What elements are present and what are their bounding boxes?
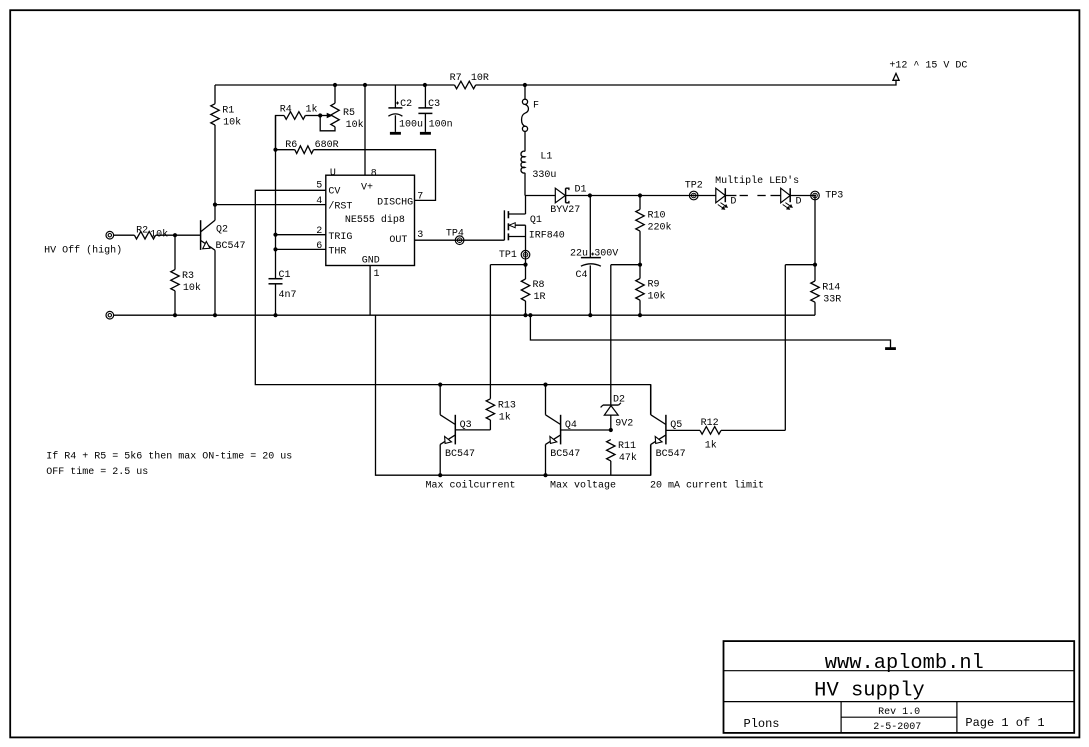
wire down to R13: [489, 265, 491, 399]
svg-text:R12: R12: [701, 418, 719, 429]
power arrow +12V supply: [893, 73, 899, 80]
node /RST junction: [213, 203, 217, 207]
svg-text:BYV27: BYV27: [550, 205, 580, 216]
capacitor C4: [589, 196, 591, 258]
wire pin5 CV run to limiter collectors: [255, 190, 650, 414]
svg-text:TP2: TP2: [685, 181, 703, 192]
svg-text:1k: 1k: [306, 104, 318, 116]
svg-text:IRF840: IRF840: [529, 231, 565, 242]
svg-text:10k: 10k: [223, 116, 241, 128]
fuse F: [523, 83, 527, 87]
wire source node to R13 drop: [490, 264, 525, 266]
wire L1 to D1: [525, 195, 555, 197]
node ground branch junction: [528, 313, 532, 317]
svg-text:680R: 680R: [315, 140, 339, 151]
node Q2 emitter junction: [213, 313, 217, 317]
svg-text:TP4: TP4: [446, 229, 464, 240]
svg-text:C4: C4: [576, 270, 588, 281]
svg-text:BC547: BC547: [656, 449, 686, 460]
svg-text:www.aplomb.nl: www.aplomb.nl: [825, 652, 984, 675]
wire down to zener D2: [610, 265, 612, 405]
svg-text:R13: R13: [498, 400, 516, 411]
resistor R14: [814, 265, 816, 281]
wire pin3 OUT to gate: [415, 239, 505, 241]
node R3 bottom junction: [173, 313, 177, 317]
node R8 bottom junction: [523, 313, 527, 317]
svg-text:R4: R4: [280, 105, 292, 116]
resistor R9: [639, 265, 641, 279]
LED D first: [716, 188, 726, 203]
svg-text:9V2: 9V2: [615, 418, 633, 429]
svg-text:C2: C2: [400, 99, 412, 110]
svg-text:4: 4: [316, 196, 322, 207]
svg-text:TP3: TP3: [825, 191, 843, 202]
resistor R4: [276, 116, 285, 150]
svg-text:BC547: BC547: [445, 449, 475, 460]
wire timing node vertical: [275, 116, 277, 279]
resistor R10: [639, 196, 641, 210]
svg-text:R14: R14: [822, 283, 840, 294]
resistor R13: [486, 399, 494, 420]
svg-text:C1: C1: [279, 270, 291, 281]
resistor R1: [214, 85, 216, 104]
terminal input common: [106, 311, 114, 319]
svg-text:If R4 + R5 = 5k6 then max ON-t: If R4 + R5 = 5k6 then max ON-time = 20 u…: [46, 451, 292, 463]
svg-text:Q1: Q1: [530, 215, 542, 226]
svg-text:33R: 33R: [823, 295, 841, 306]
potentiometer R5: [333, 83, 337, 87]
svg-text:2-5-2007: 2-5-2007: [873, 722, 921, 733]
LED D second: [781, 188, 791, 203]
resistor R3: [174, 235, 176, 269]
svg-text:C3: C3: [428, 99, 440, 110]
svg-text:U: U: [330, 168, 336, 179]
svg-text:BC547: BC547: [550, 449, 580, 460]
inductor L1: [521, 151, 525, 173]
svg-text:10k: 10k: [183, 282, 201, 294]
svg-text:Max voltage: Max voltage: [550, 480, 616, 492]
node Q4 emitter junction: [543, 473, 547, 477]
transistor Q4 BC547: [545, 385, 547, 415]
svg-text:R2: R2: [136, 226, 148, 237]
svg-text:6: 6: [316, 241, 322, 252]
svg-text:GND: GND: [362, 256, 380, 267]
transistor Q3 BC547: [439, 385, 441, 415]
ground: [885, 347, 896, 350]
node R14 top junction: [813, 263, 817, 267]
node pin2 junction: [273, 233, 277, 237]
node C1 bottom junction: [273, 313, 277, 317]
node Q3 emitter junction: [438, 473, 442, 477]
wire D1 to LED chain: [566, 195, 716, 197]
resistor R7: [455, 81, 476, 89]
svg-text:10k: 10k: [346, 119, 364, 131]
wire +12V top rail right segment: [476, 80, 896, 85]
svg-text:100u: 100u: [399, 119, 423, 130]
svg-text:Max coilcurrent: Max coilcurrent: [426, 480, 516, 492]
testpoint TP1: [521, 250, 530, 259]
svg-text:R6: R6: [285, 140, 297, 151]
svg-text:TP1: TP1: [499, 250, 517, 261]
svg-text:R9: R9: [648, 280, 660, 291]
svg-text:/RST: /RST: [328, 200, 352, 212]
wire dashes to LED2: [771, 195, 781, 197]
resistor R8: [525, 265, 527, 279]
wire TP3 down to R14 node: [814, 196, 816, 265]
svg-text:R11: R11: [618, 441, 636, 452]
svg-text:300V: 300V: [594, 249, 618, 260]
node source junction: [523, 263, 527, 267]
svg-text:22u: 22u: [570, 249, 588, 260]
svg-text:TRIG: TRIG: [328, 232, 352, 243]
svg-text:Page 1 of 1: Page 1 of 1: [965, 716, 1044, 730]
svg-text:1k: 1k: [499, 411, 511, 423]
node R9 bottom junction: [638, 313, 642, 317]
transistor Q5 BC547: [650, 385, 652, 415]
svg-text:+12 ^ 15 V DC: +12 ^ 15 V DC: [889, 61, 967, 72]
svg-text:CV: CV: [328, 187, 340, 198]
svg-text:OFF time = 2.5 us: OFF time = 2.5 us: [46, 466, 148, 478]
svg-text:DISCHG: DISCHG: [377, 198, 413, 209]
wire V+ to pin 8: [363, 83, 367, 87]
svg-text:D2: D2: [613, 395, 625, 406]
wire R2 to Q2 base: [156, 234, 201, 236]
svg-text:10k: 10k: [150, 228, 168, 240]
wire R13 to Q3 base: [455, 429, 490, 431]
svg-text:1: 1: [374, 269, 380, 280]
svg-text:OUT: OUT: [389, 235, 407, 246]
title block: [724, 641, 1075, 733]
svg-text:Rev 1.0: Rev 1.0: [878, 707, 920, 718]
diode D2 zener 9V2: [603, 404, 619, 406]
node D2/R11 junction: [609, 428, 613, 432]
wire R9 node to D2 line: [611, 264, 640, 266]
resistor R12: [666, 429, 700, 431]
testpoint TP3: [811, 191, 820, 200]
capacitor C3: [423, 83, 427, 87]
svg-text:20 mA current limit: 20 mA current limit: [650, 480, 764, 492]
node Q3 collector junction: [438, 383, 442, 387]
wire input to R2: [114, 234, 135, 236]
node R10 top junction: [638, 193, 642, 197]
wire pin1 gnd feed to limiter emitters: [376, 315, 651, 475]
svg-text:R10: R10: [648, 211, 666, 222]
wire pin4 /RST to node: [215, 204, 326, 206]
resistor R11: [607, 440, 615, 461]
svg-text:Q5: Q5: [670, 420, 682, 431]
svg-text:1R: 1R: [534, 292, 546, 303]
svg-text:10R: 10R: [471, 73, 489, 84]
svg-text:F: F: [533, 101, 539, 112]
op-amp U1 NE555 timer box: [326, 175, 415, 265]
transistor Q1 IRF840: [503, 210, 505, 240]
svg-text:D: D: [730, 196, 736, 207]
svg-text:2: 2: [316, 226, 322, 237]
svg-text:R5: R5: [343, 108, 355, 119]
wire down to R12: [784, 265, 786, 431]
svg-text:4n7: 4n7: [279, 290, 297, 301]
testpoint TP2: [689, 191, 698, 200]
svg-text:Q3: Q3: [460, 420, 472, 431]
capacitor C1: [269, 278, 283, 280]
svg-text:R1: R1: [222, 105, 234, 116]
svg-text:THR: THR: [328, 246, 346, 257]
resistor R2: [134, 231, 155, 239]
svg-text:V+: V+: [361, 183, 373, 194]
wire LED2 to TP3: [790, 195, 815, 197]
svg-text:HV Off (high): HV Off (high): [44, 244, 122, 256]
wire Q4 base to D2 node: [561, 429, 611, 431]
wire +12V top rail left segment: [215, 84, 455, 86]
node R10/R9 junction: [638, 263, 642, 267]
resistor R6: [273, 148, 277, 152]
diode D1 BYV27: [555, 188, 565, 203]
svg-text:100n: 100n: [429, 119, 453, 130]
node C4 bottom junction: [588, 313, 592, 317]
svg-text:220k: 220k: [648, 222, 672, 234]
svg-text:L1: L1: [540, 151, 552, 162]
svg-text:1k: 1k: [705, 440, 717, 452]
svg-text:8: 8: [371, 168, 377, 179]
wire pin2 TRIG: [276, 234, 326, 236]
wire dashed multiple LEDs: [740, 195, 767, 197]
svg-text:D1: D1: [575, 184, 587, 195]
wire pin6 THR: [276, 248, 326, 250]
terminal input HV Off: [106, 231, 114, 239]
node R2/R3 junction: [173, 233, 177, 237]
svg-text:D: D: [796, 196, 802, 207]
testpoint TP4: [455, 236, 464, 245]
svg-text:10k: 10k: [648, 291, 666, 303]
capacitor C2: [394, 85, 396, 108]
svg-text:R7: R7: [450, 73, 462, 84]
wire pin1 GND: [369, 266, 371, 316]
svg-text:7: 7: [417, 191, 423, 202]
svg-text:47k: 47k: [619, 452, 637, 464]
transistor Q2 BC547: [214, 205, 216, 221]
svg-text:Q2: Q2: [216, 224, 228, 235]
svg-text:330u: 330u: [532, 170, 556, 181]
node Q4 collector junction: [543, 383, 547, 387]
svg-text:NE555 dip8: NE555 dip8: [345, 214, 405, 226]
node pin6 junction: [273, 247, 277, 251]
svg-text:Plons: Plons: [744, 717, 780, 731]
node R4/R5 wiper junction: [318, 113, 322, 117]
wire R14 node to R12 line: [785, 264, 815, 266]
wire lower common rail: [114, 314, 815, 316]
node C4 top junction: [588, 193, 592, 197]
svg-text:R3: R3: [182, 271, 194, 282]
svg-text:Multiple LED's: Multiple LED's: [715, 175, 799, 187]
svg-text:HV supply: HV supply: [814, 680, 925, 703]
svg-text:BC547: BC547: [216, 241, 246, 252]
wire LED1 to dashes: [725, 195, 736, 197]
svg-text:R8: R8: [533, 280, 545, 291]
wire rail to ground symbol: [530, 315, 890, 348]
